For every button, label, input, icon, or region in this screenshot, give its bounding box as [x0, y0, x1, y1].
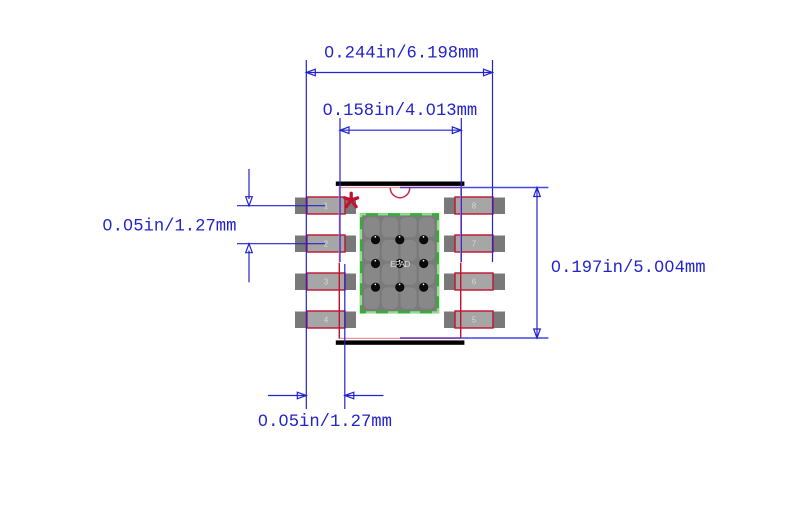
pad P4 copper: [295, 312, 356, 329]
top terminal bar (black): [336, 182, 465, 186]
pin 1 marker star: [345, 193, 358, 206]
pin 6 lead outline: [455, 273, 493, 290]
via V4: [371, 259, 380, 268]
svg-text:0.197in/5.004mm: 0.197in/5.004mm: [551, 259, 706, 278]
pin 7 lead outline: [455, 235, 493, 252]
pad P2 copper: [295, 236, 356, 253]
svg-text:0.158in/4.013mm: 0.158in/4.013mm: [323, 102, 478, 121]
pin number 7: [472, 239, 477, 248]
pin number 4: [324, 315, 329, 324]
pin 4 lead outline: [307, 311, 345, 328]
svg-text:0.05in/1.27mm: 0.05in/1.27mm: [102, 218, 236, 237]
dimension text 0.158in/4.013mm: [323, 102, 478, 121]
left pitch dimension text 0.05in/1.27mm: [102, 218, 236, 237]
pin 1 lead outline: [307, 197, 345, 214]
pin 5 lead outline: [455, 311, 493, 328]
svg-text:0.05in/1.27mm: 0.05in/1.27mm: [258, 413, 392, 432]
pin number 2: [324, 239, 329, 248]
svg-text:4: 4: [324, 315, 329, 324]
pin 3 lead outline: [307, 273, 345, 290]
bottom offset right extension line: [344, 264, 346, 409]
pin number 1: [324, 201, 329, 210]
pad P5 copper: [444, 312, 505, 329]
left pitch leader to pad 1: [237, 205, 325, 207]
extension line right 0.158: [460, 118, 462, 262]
zero glyph dot covers (match plain CAD zeros): [106, 49, 672, 422]
via V2: [395, 235, 404, 244]
pin 1 index arc: [390, 188, 409, 198]
body left edge lower segment (red): [338, 263, 340, 338]
via V1: [371, 235, 380, 244]
pad P7 copper: [444, 236, 505, 253]
pad P6 copper: [444, 274, 505, 291]
pin number 5: [472, 315, 477, 324]
extension line left (0.244 / bottom dim shared): [305, 60, 307, 409]
pin number 8: [472, 201, 477, 210]
svg-text:5: 5: [472, 315, 477, 324]
dimension line 0.158: [340, 127, 461, 134]
left pitch leader to pad 2: [237, 243, 325, 245]
right dimension line with arrows: [534, 188, 541, 339]
EPAD paste tiles 4x4: [364, 217, 435, 309]
svg-text:8: 8: [472, 201, 477, 210]
right dimension top extension: [400, 187, 548, 189]
via V9: [419, 283, 428, 292]
pad P1 copper: [295, 198, 356, 215]
bottom terminal bar (black): [336, 340, 465, 344]
pin number 3: [324, 277, 329, 286]
body right edge lower segment (red): [460, 263, 462, 338]
EPAD border dash pattern (light green): [361, 214, 438, 312]
dimension text 0.244in/6.198mm: [324, 45, 479, 64]
via V7: [371, 283, 380, 292]
pin number 6: [472, 277, 477, 286]
left pitch dimension arrows: [246, 169, 253, 282]
extension line left 0.158: [339, 118, 341, 262]
pin 8 lead outline: [455, 197, 493, 214]
dimension line 0.244: [306, 69, 492, 76]
via V6: [419, 259, 428, 268]
pad P8 copper: [444, 198, 505, 215]
svg-text:6: 6: [472, 277, 477, 286]
pin 2 lead outline: [307, 235, 345, 252]
bottom offset dimension text 0.05in/1.27mm: [258, 413, 392, 432]
svg-text:7: 7: [472, 239, 477, 248]
right dimension bottom extension: [400, 337, 548, 339]
svg-text:3: 3: [324, 277, 329, 286]
svg-text:EPAD: EPAD: [390, 259, 410, 269]
right height dimension text 0.197in/5.004mm: [551, 259, 706, 278]
EPAD thermal pad base: [361, 214, 438, 312]
package body outline (silkscreen, pink): [339, 188, 460, 339]
via V3: [419, 235, 428, 244]
svg-text:0.244in/6.198mm: 0.244in/6.198mm: [324, 45, 479, 64]
bottom offset arrows: [268, 392, 384, 399]
EPAD label: [390, 259, 410, 269]
via V8: [395, 283, 404, 292]
pad P3 copper: [295, 274, 356, 291]
via V5 (center): [395, 259, 404, 268]
extension line right 0.244: [492, 60, 494, 262]
